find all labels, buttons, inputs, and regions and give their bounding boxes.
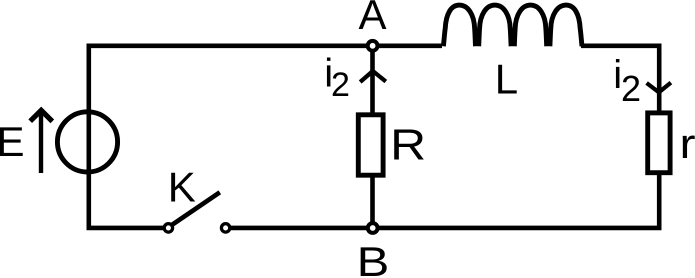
svg-text:2: 2 [331,66,350,104]
svg-text:A: A [358,0,386,38]
svg-text:2: 2 [621,68,641,109]
svg-text:r: r [680,120,695,167]
svg-text:L: L [495,56,518,103]
svg-text:K: K [168,163,196,210]
svg-text:R: R [390,121,426,170]
svg-text:E: E [0,118,25,165]
svg-text:B: B [357,238,390,278]
